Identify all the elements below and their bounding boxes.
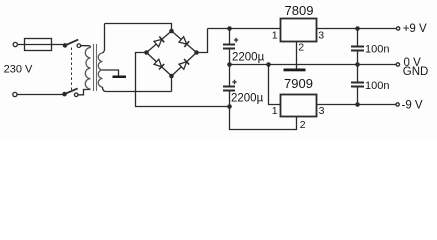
7809 regulator U1 box: [281, 19, 317, 42]
capacitor C4 plates: [351, 83, 364, 87]
node: bridge top: [169, 29, 174, 34]
diode D4: [172, 53, 197, 77]
wire: N terminal to switch S1b: [17, 94, 62, 96]
capacitor C2 plates: [223, 87, 235, 91]
switch S1b blade: [65, 88, 78, 94]
ground bar (0V rail): [284, 69, 306, 72]
capacitor C4 100n stub top: [357, 65, 359, 82]
wire: secondary bottom end to AC2 run: [103, 87, 172, 92]
switch S1a pivot: [63, 43, 68, 48]
node: 0V rail / 7909 gnd dropper: [266, 62, 271, 67]
wire: S1a contact to transformer primary top: [81, 46, 91, 48]
terminal +9V: [396, 27, 399, 30]
terminal N (bottom mains input): [13, 92, 17, 96]
svg-text:-9 V: -9 V: [402, 100, 423, 112]
wire: 0V rail: [230, 64, 397, 66]
7909 regulator U2 box: [281, 95, 317, 117]
node: minus rail / C4: [355, 102, 360, 107]
svg-text:100n: 100n: [365, 80, 389, 92]
diode D1: [147, 31, 172, 53]
wire: L terminal to switch S1a: [18, 44, 64, 46]
node: 0V rail / C1: [227, 62, 232, 67]
svg-text:3: 3: [318, 29, 324, 41]
node: plus rail / C3: [355, 26, 360, 31]
wire: bridge right node up to plus rail: [197, 29, 208, 53]
fuse F1: [25, 39, 52, 51]
svg-text:2200µ: 2200µ: [231, 93, 264, 105]
switch S1b pivot: [62, 92, 67, 97]
transformer TR1 secondary winding: [98, 53, 102, 87]
switch S1a blade: [65, 40, 78, 46]
capacitor C3 stub bottom: [357, 52, 359, 65]
node: 0V rail / C3: [355, 62, 360, 67]
node: bridge left: [144, 50, 149, 55]
terminal -9V: [396, 103, 399, 106]
svg-text:2: 2: [298, 41, 304, 53]
capacitor C3 100n stub top: [357, 29, 359, 46]
node: bridge bottom: [169, 74, 174, 79]
wire: 7809 pin 3 to +9V terminal: [317, 28, 397, 30]
node: minus rail / C2: [227, 104, 232, 109]
capacitor C2 2200u stub top: [229, 65, 231, 86]
switch S1b contact: [74, 93, 78, 97]
wire: 7809 pin 2 to ground: [296, 42, 298, 69]
svg-text:+9 V: +9 V: [403, 23, 427, 35]
wire: plus rail to 7809 pin 1: [208, 28, 281, 30]
svg-text:7809: 7809: [285, 3, 314, 18]
svg-text:230 V: 230 V: [4, 63, 33, 75]
svg-text:1: 1: [272, 105, 278, 117]
node: plus rail / C1: [227, 26, 232, 31]
transformer TR1 primary winding: [85, 48, 90, 90]
node: bridge right: [194, 50, 199, 55]
wire: 7909 pin 3 to -9V terminal: [317, 104, 396, 106]
capacitor C1 plates: [223, 45, 235, 49]
svg-text:7909: 7909: [284, 76, 313, 91]
terminal L (top mains input): [13, 42, 17, 46]
capacitor C3 plates: [351, 47, 364, 51]
svg-text:GND: GND: [403, 66, 429, 78]
wire: 0V rail down to 7909 pin 1: [269, 65, 281, 105]
transformer TR1 core: [94, 44, 97, 91]
switch S1a contact: [77, 44, 81, 48]
diode D2: [172, 31, 197, 53]
capacitor C2 polarity plus: [232, 80, 236, 84]
capacitor C1 2200u stub top: [229, 29, 231, 44]
terminal 0V: [396, 63, 399, 66]
capacitor C4 stub bottom: [357, 88, 359, 105]
capacitor C1 polarity plus: [234, 38, 238, 42]
svg-text:1: 1: [272, 29, 278, 41]
wire: S1b contact to transformer primary bottom: [78, 90, 90, 95]
svg-text:3: 3: [319, 105, 325, 117]
ground bar (center tap): [113, 76, 127, 79]
wire: bridge bottom node stub: [171, 76, 173, 92]
svg-text:100n: 100n: [365, 43, 389, 55]
wire: secondary top end up to AC rail: [103, 24, 105, 54]
capacitor C1 stub bottom: [229, 50, 231, 65]
switch gang dashed link: [71, 48, 73, 91]
svg-text:2200µ: 2200µ: [232, 52, 265, 64]
diode D3: [147, 53, 172, 77]
svg-text:2: 2: [300, 119, 306, 131]
capacitor C2 stub bottom / wire to 7909 pin 2: [230, 92, 297, 130]
wire: bridge left node to minus rail: [136, 53, 230, 107]
wire: AC rail to bridge top node: [105, 24, 172, 32]
wire: secondary center tap: [103, 70, 119, 76]
